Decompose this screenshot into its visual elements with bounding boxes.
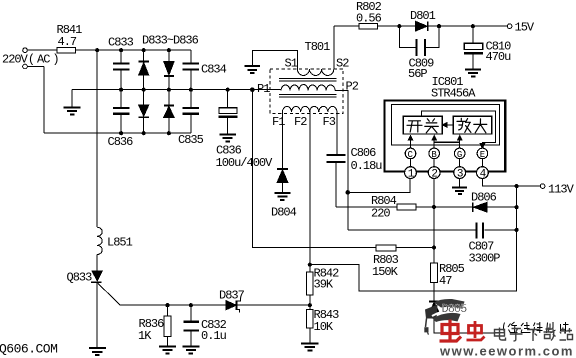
svg-text:1K: 1K (138, 329, 152, 343)
wire R842 top branch (310, 186, 517, 291)
wire P2 (335, 91, 348, 193)
node R842 top (308, 263, 312, 267)
node pin1 P2 (346, 190, 351, 195)
wire D837 to R842/R843 junction (237, 304, 310, 306)
svg-text:S2: S2 (336, 57, 349, 71)
diode D836 (164, 90, 174, 134)
terminal 220V AC live (23, 48, 28, 53)
wire left vertical from bridge top junction down (96, 50, 98, 227)
arrow into C (408, 136, 413, 148)
arrow into G (457, 136, 462, 148)
ground under C836 electrolytic (219, 134, 236, 141)
ground under D804 (274, 193, 290, 200)
wire R841 to bridge top (76, 49, 191, 51)
svg-text:D801: D801 (410, 9, 436, 23)
wire P2/pin1 node down (347, 192, 349, 230)
text 放 in amp block (457, 118, 471, 132)
feedback line to pin E (422, 111, 496, 148)
wire L851 to Q833 (96, 255, 98, 272)
resistor R841 (57, 47, 76, 53)
stub C to 1 (410, 159, 412, 167)
wire neutral vertical (43, 67, 45, 134)
svg-text:3: 3 (457, 169, 464, 181)
resistor R803 (376, 245, 396, 251)
text 关 in switch block (425, 119, 439, 133)
node C807 rail (515, 228, 519, 232)
capacitor C832 (183, 305, 199, 346)
pin 2 circle (428, 167, 440, 179)
svg-text:3300P: 3300P (469, 252, 501, 266)
arrow into B (432, 136, 437, 148)
resistor R805 (431, 263, 438, 282)
diode D833 (139, 50, 149, 89)
pin 1 circle (405, 167, 417, 179)
svg-text:D806: D806 (471, 191, 497, 205)
svg-text:T801: T801 (305, 40, 331, 54)
wire pin2 down (433, 179, 435, 264)
node C810 (471, 24, 475, 28)
capacitor C807 (477, 222, 484, 238)
diode D804 (277, 169, 288, 192)
wire R804 to D806 (416, 206, 472, 208)
terminal 220V AC neutral (23, 64, 28, 69)
text 开 in switch block (407, 121, 422, 132)
wire R803 to pin2 line (396, 247, 434, 249)
wire R802 from S2 (334, 25, 359, 27)
transformer T801 core (279, 79, 336, 97)
capacitor C806 (327, 155, 346, 207)
node R803 pin2 (432, 246, 436, 250)
ground S1 (245, 66, 261, 73)
IC U801 outer box (385, 101, 506, 172)
ground pin3 (452, 188, 467, 195)
svg-text:L851: L851 (107, 236, 133, 250)
svg-text:0.18u: 0.18u (351, 159, 383, 173)
wire bridge middle to P1 (72, 89, 281, 91)
pin C circle (405, 148, 416, 159)
transformer T801 dashed box (270, 69, 343, 114)
link B to G (434, 141, 460, 143)
transistor Q833 (91, 271, 121, 347)
node R836 (165, 303, 169, 307)
ground under C832 (183, 347, 200, 354)
node C832 (189, 303, 193, 307)
diode D834 (164, 50, 174, 89)
node R802 D801 (397, 24, 401, 28)
diode D801 (416, 21, 428, 31)
svg-text:4: 4 (480, 169, 487, 181)
svg-text:C806: C806 (351, 146, 377, 160)
node 113V pin4 (515, 184, 519, 188)
wire D806 to 113V rail (487, 206, 516, 208)
watermark gray 电子下载站 (495, 328, 573, 342)
svg-text:S1: S1 (285, 57, 298, 71)
node C833 top (119, 48, 123, 52)
pin B circle (429, 148, 440, 159)
ground left stem (71, 90, 73, 107)
pin 4 circle (477, 167, 489, 179)
capacitor C809 (399, 26, 439, 56)
wire pin4 to 113V (482, 179, 540, 187)
watermark bug stripe (432, 310, 463, 316)
node C833 mid (119, 88, 123, 92)
svg-text:B: B (431, 150, 437, 160)
svg-text:10K: 10K (314, 320, 334, 334)
wire D801 to C810 to 15V (429, 25, 508, 27)
capacitor C833 (113, 50, 129, 89)
wire D805 to flyback pulse (434, 313, 500, 333)
node D834 top (167, 48, 171, 52)
watermark bug tassel (426, 319, 427, 328)
svg-text:D837: D837 (219, 289, 245, 303)
resistor R836 (164, 305, 171, 346)
watermark red 虫 first (440, 320, 462, 342)
diode D805 (429, 301, 439, 313)
svg-text:2: 2 (431, 169, 438, 181)
node R842 R843 (308, 303, 312, 307)
svg-text:39K: 39K (314, 278, 334, 292)
node C834 mid (189, 88, 193, 92)
svg-text:C: C (408, 150, 414, 160)
svg-text:Q606.COM: Q606.COM (0, 342, 57, 357)
svg-text:4.7: 4.7 (58, 35, 77, 49)
svg-text:D805: D805 (442, 302, 468, 316)
transformer T801 winding S1-S2 (297, 69, 333, 75)
resistor R804 (397, 204, 416, 210)
svg-text:C835: C835 (178, 133, 204, 147)
wire C806 to R804 (336, 206, 397, 208)
wire to C807 (348, 229, 476, 231)
capacitor C834 (183, 50, 199, 89)
resistor R802 (359, 23, 378, 29)
pin G circle (454, 148, 465, 159)
svg-text:C833: C833 (108, 36, 134, 50)
text 大 in amp block (474, 119, 487, 133)
stub G to 3 (459, 159, 461, 167)
svg-text:P1: P1 (257, 82, 270, 96)
svg-text:0.1u: 0.1u (201, 329, 227, 343)
capacitor C836 bridge (113, 90, 129, 134)
wire pin3 to ground (459, 179, 461, 187)
terminal 15V (507, 24, 512, 29)
IC switch block 开关 (403, 116, 442, 134)
svg-text:Q833: Q833 (67, 271, 93, 285)
svg-text:F1: F1 (272, 115, 285, 129)
resistor R842 (306, 265, 313, 306)
inductor L851 (97, 227, 102, 254)
svg-text:47: 47 (439, 274, 452, 288)
svg-text:F3: F3 (323, 115, 336, 129)
ground under Q833 (89, 348, 106, 355)
wire F2 down (309, 112, 311, 265)
node D834 mid (167, 88, 171, 92)
pin 3 circle (454, 167, 466, 179)
svg-text:C834: C834 (201, 63, 227, 77)
watermark bug brim (433, 313, 461, 322)
node D833 mid (142, 88, 146, 92)
capacitor C810 electrolytic (464, 26, 483, 69)
node P1 (250, 87, 255, 92)
IC amp block 放大 (453, 116, 491, 134)
svg-text:56P: 56P (408, 67, 427, 81)
svg-text:220: 220 (371, 207, 390, 221)
wire P1 down to R803 (252, 90, 376, 248)
svg-text:100u/400V: 100u/400V (216, 156, 274, 170)
node D835 bottom (142, 131, 146, 135)
wire S2 up to R802 (333, 26, 335, 69)
node D801 C809 (437, 24, 441, 28)
terminal 113V (540, 184, 545, 189)
node D833 top (142, 48, 146, 52)
arrow amp to switch (442, 123, 453, 128)
wire S1 to ground (252, 51, 297, 70)
svg-text:F2: F2 (294, 115, 307, 129)
svg-text:150K: 150K (372, 265, 399, 279)
node D806 rail (515, 205, 519, 209)
svg-text:www.eeworm.com: www.eeworm.com (439, 344, 574, 358)
wire F3 down to C806 (336, 112, 338, 154)
svg-text:0.56: 0.56 (356, 12, 382, 26)
svg-text:D833~D836: D833~D836 (142, 34, 199, 48)
diode D835 (139, 90, 149, 134)
ground under R836 (159, 347, 176, 354)
wire C807 to 113V rail (484, 229, 516, 231)
wire bridge bottom (44, 132, 191, 134)
svg-text:113V: 113V (548, 183, 575, 197)
capacitor C835 (183, 90, 199, 134)
transformer T801 winding P1-P2 (281, 85, 335, 91)
pin E circle (477, 148, 488, 159)
wire F1 down (281, 112, 283, 168)
stub B to 2 (433, 159, 435, 167)
svg-text:G: G (457, 150, 462, 160)
diode D806 (473, 202, 487, 212)
node bridge top R841 (95, 48, 99, 52)
ground under R843 (301, 344, 319, 351)
node D836 bottom (167, 131, 171, 135)
stub E to 4 (481, 159, 483, 167)
wire Q833 emitter to D837 (120, 304, 225, 306)
node C836 bottom (119, 131, 123, 135)
watermark bug cap top (424, 299, 464, 335)
node R804 pin2 (432, 205, 436, 209)
wire R805 to D805 (433, 282, 435, 301)
svg-text:470u: 470u (486, 50, 512, 64)
resistor R843 (306, 305, 313, 343)
wire live to R841 (27, 49, 57, 51)
svg-text:D804: D804 (271, 206, 297, 220)
IC inner box (391, 104, 499, 145)
ground left (64, 107, 81, 114)
svg-text:220V(AC): 220V(AC) (2, 53, 59, 67)
svg-text:E: E (480, 150, 485, 160)
text flyback pulse note 行逆程脉冲 (504, 322, 570, 334)
wire neutral horizontal (27, 66, 44, 68)
transformer T801 winding F1-F2-F3 (282, 106, 337, 112)
node C836 elec mid (226, 88, 230, 92)
svg-text:15V: 15V (515, 21, 535, 35)
diode D837 zener (226, 298, 241, 312)
wire R802 to D801 (378, 25, 416, 27)
ground under C810 (465, 69, 481, 76)
svg-text:P2: P2 (346, 80, 359, 94)
svg-text:1: 1 (408, 169, 415, 181)
svg-text:STR456A: STR456A (431, 87, 476, 101)
watermark red 虫 second (467, 321, 485, 340)
capacitor C836 electrolytic 100u/400V (218, 90, 237, 134)
wire pin1 (348, 179, 410, 193)
svg-text:C836: C836 (108, 135, 134, 149)
